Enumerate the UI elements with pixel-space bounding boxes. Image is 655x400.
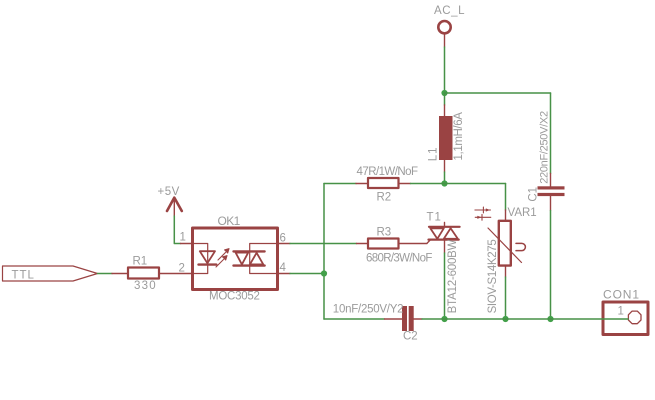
wire C1 to bottom rail xyxy=(550,211,552,320)
OK1 triac bracket xyxy=(250,244,278,274)
supply +5V arrow xyxy=(167,198,182,211)
op-amp OK1 box xyxy=(193,228,278,290)
OK1 LED bracket xyxy=(193,244,208,274)
triac T1 top bar xyxy=(429,226,460,228)
OK1 triac top bar xyxy=(234,250,265,252)
svg-text:1,1mH/6A: 1,1mH/6A xyxy=(453,112,465,161)
junction bottom VAR1 xyxy=(502,316,508,322)
svg-text:OK1: OK1 xyxy=(218,214,241,228)
svg-text:10nF/250V/Y2: 10nF/250V/Y2 xyxy=(333,304,404,316)
wire top rail to C1 branch xyxy=(445,92,551,94)
wire junction to L1 xyxy=(444,93,446,105)
wire R2 to junction xyxy=(411,183,445,185)
wire left rail to R2 xyxy=(324,183,356,185)
triac T1 gate lead xyxy=(427,240,430,243)
pin stub R3 left xyxy=(357,243,369,245)
svg-text:2: 2 xyxy=(179,263,185,275)
junction pin4/rail xyxy=(321,270,327,276)
capacitor C2 plate 1 xyxy=(402,306,407,331)
wire R1 to OK1 pin 2 (red net) xyxy=(159,273,193,275)
capacitor C2 plate 2 xyxy=(409,306,414,331)
svg-text:+5V: +5V xyxy=(158,186,180,198)
pin stub R2 right xyxy=(399,183,411,185)
pin stub AC_L xyxy=(444,35,446,47)
svg-text:R3: R3 xyxy=(377,227,392,239)
svg-text:330: 330 xyxy=(134,280,157,292)
svg-text:AC_L: AC_L xyxy=(434,5,465,17)
connector flag TTL xyxy=(3,266,98,281)
capacitor C1 plate 2 xyxy=(538,193,565,196)
junction mid xyxy=(441,180,447,186)
bottom rail right xyxy=(422,318,628,320)
svg-text:6: 6 xyxy=(280,233,286,245)
wire L1 to junction xyxy=(444,172,446,184)
wire T1 to bottom rail xyxy=(444,253,446,319)
OK1 triac left triangle xyxy=(236,253,249,265)
svg-text:C1: C1 xyxy=(527,187,539,202)
varistor VAR1 mini arrow 1 xyxy=(475,207,491,213)
svg-text:4: 4 xyxy=(280,262,287,274)
resistor R2 xyxy=(368,178,399,188)
pin stub C2 left xyxy=(385,318,403,320)
pin stub C2 right xyxy=(414,318,422,320)
pin stub R1 left xyxy=(112,273,128,275)
svg-text:47R/1W/NoF: 47R/1W/NoF xyxy=(357,166,418,178)
OK1 light arrow 1 xyxy=(218,249,229,260)
svg-text:CON1: CON1 xyxy=(603,288,640,302)
junction top xyxy=(441,90,447,96)
triac T1 right triangle xyxy=(444,228,458,239)
varistor VAR1 diagonal xyxy=(488,228,522,263)
svg-text:1: 1 xyxy=(180,232,186,244)
varistor VAR1 body xyxy=(499,221,511,266)
svg-text:SIOV-S14K275: SIOV-S14K275 xyxy=(487,240,499,314)
svg-text:R2: R2 xyxy=(377,192,392,204)
CON1 pin octagon xyxy=(628,311,641,324)
svg-text:BTA12-600BW: BTA12-600BW xyxy=(447,239,459,313)
bottom rail left xyxy=(324,318,385,320)
wire junction to VAR1 branch xyxy=(445,183,506,185)
supply +5V stem xyxy=(173,198,175,216)
varistor VAR1 mini arrow 2 xyxy=(475,214,491,220)
wire +5V to pin 1 xyxy=(174,216,180,244)
pin stub L1 bottom xyxy=(444,160,446,172)
pin stub VAR1 bottom xyxy=(505,266,507,278)
svg-text:C2: C2 xyxy=(403,331,418,343)
wire VAR1 down xyxy=(505,184,507,211)
svg-text:220nF/250V/X2: 220nF/250V/X2 xyxy=(538,111,550,184)
OK1 LED cathode bar xyxy=(199,263,217,265)
pin stub OK1 pin 6 xyxy=(278,243,291,245)
triac T1 bottom bar xyxy=(429,239,459,241)
pin stub L1 top xyxy=(444,105,446,116)
svg-text:R1: R1 xyxy=(133,256,148,268)
inductor L1 body xyxy=(439,116,453,160)
svg-text:L1: L1 xyxy=(427,146,439,161)
capacitor C1 plate 1 xyxy=(538,186,565,189)
pin stub R2 left xyxy=(356,183,368,185)
OK1 light arrow 2 xyxy=(216,256,227,267)
pin stub C1 bottom xyxy=(550,196,552,211)
junction bottom C1 xyxy=(547,316,553,322)
junction bottom T1 xyxy=(441,316,447,322)
wire VAR1 to bottom rail xyxy=(505,277,507,319)
pin stub T1 bottom xyxy=(444,241,446,254)
pin circle AC_L xyxy=(438,21,450,33)
OK1 triac right triangle xyxy=(250,253,263,265)
wire TTL to R1 xyxy=(98,273,113,275)
wire pin 4 to left rail xyxy=(290,273,324,275)
varistor U label xyxy=(516,243,525,250)
svg-text:680R/3W/NoF: 680R/3W/NoF xyxy=(366,253,432,265)
pin stub OK1 pin 1 xyxy=(181,243,193,245)
pin stub T1 top xyxy=(444,223,446,228)
connector CON1 box xyxy=(603,302,648,335)
OK1 triac bottom bar xyxy=(234,264,265,266)
svg-text:VAR1: VAR1 xyxy=(508,207,537,219)
OK1 LED triangle xyxy=(200,251,215,263)
svg-text:T1: T1 xyxy=(427,212,442,224)
wire AC_L to junction xyxy=(444,47,446,93)
left rail vertical xyxy=(323,184,325,320)
svg-text:1: 1 xyxy=(618,306,624,318)
pin stub C1 top xyxy=(550,174,552,187)
triac T1 left triangle xyxy=(430,228,444,239)
resistor R3 xyxy=(368,239,399,249)
svg-text:TTL: TTL xyxy=(12,270,35,282)
pin stub R3 right xyxy=(399,243,428,245)
wire C1 branch down xyxy=(550,93,552,174)
resistor R1 xyxy=(128,268,159,279)
pin stub OK1 pin 4 xyxy=(278,273,291,275)
pin stub VAR1 top xyxy=(505,210,507,221)
wire pin 6 to R3 xyxy=(290,243,357,245)
svg-text:MOC3052: MOC3052 xyxy=(209,291,260,303)
